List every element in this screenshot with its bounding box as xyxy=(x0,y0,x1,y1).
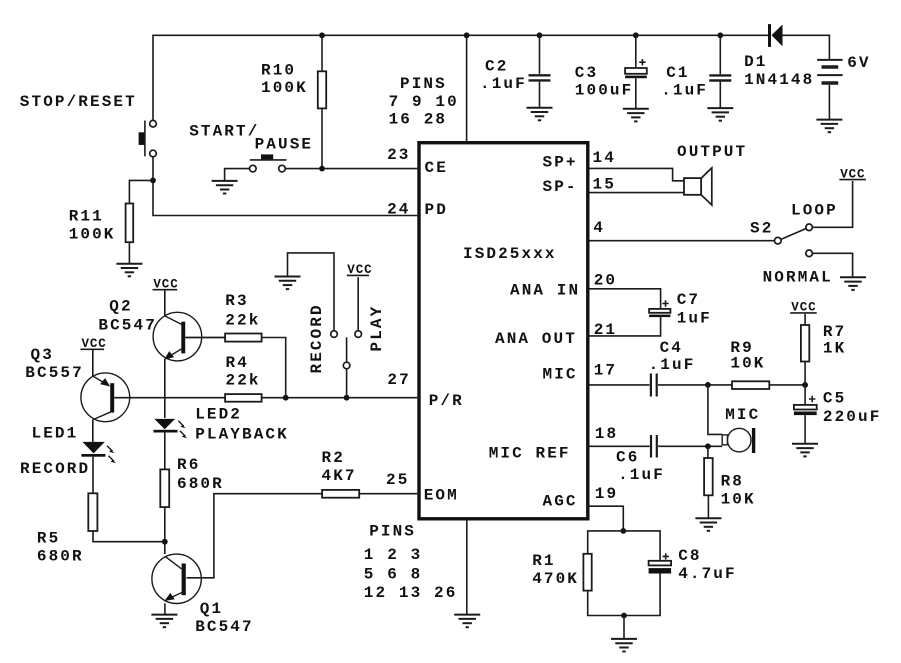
label R3 22k xyxy=(225,292,260,330)
svg-text:STOP/RESET: STOP/RESET xyxy=(20,93,137,111)
pin 23 CE xyxy=(387,146,448,177)
svg-text:6V: 6V xyxy=(847,54,870,72)
svg-text:BC547: BC547 xyxy=(195,618,254,636)
wire VCC to Q3 emitter xyxy=(92,349,94,376)
ground R1/C8 xyxy=(611,639,637,652)
wire node to R7 xyxy=(804,362,806,385)
wire R4 to Q3 base xyxy=(114,397,225,399)
svg-text:680R: 680R xyxy=(177,475,224,493)
svg-text:.1uF: .1uF xyxy=(649,356,696,374)
wire R7 to VCC xyxy=(804,314,806,325)
svg-text:C6: C6 xyxy=(616,449,639,467)
ground C2 xyxy=(527,108,553,121)
svg-text:5 6 8: 5 6 8 xyxy=(364,566,423,584)
wire R3 to Q2 base xyxy=(185,337,225,339)
svg-text:Q2: Q2 xyxy=(109,298,132,316)
label R11 100K xyxy=(69,207,116,243)
label R6 680R xyxy=(177,456,224,493)
ground Q1 xyxy=(151,615,177,628)
svg-text:R1: R1 xyxy=(532,552,555,570)
node stop-reset junction xyxy=(150,178,156,184)
svg-text:START/: START/ xyxy=(189,122,259,140)
power VCC PLAY xyxy=(347,263,373,277)
svg-text:4.7uF: 4.7uF xyxy=(678,565,737,583)
capacitor C6 xyxy=(651,435,657,458)
wire Q3 collector to LED1 xyxy=(92,420,94,442)
wire R10 top xyxy=(321,35,323,71)
node MICREF-R8 junction xyxy=(705,443,711,449)
ground pin 26 xyxy=(454,615,480,628)
LED LED1 xyxy=(81,442,116,463)
wire junction to R11 xyxy=(129,180,153,203)
svg-text:MIC: MIC xyxy=(543,366,578,384)
wire node to R8 xyxy=(707,446,709,458)
svg-text:680R: 680R xyxy=(37,548,84,566)
label PINS 1 2 3 5 6 8 12 13 26 xyxy=(364,523,458,602)
label R2 4K7 xyxy=(322,449,357,485)
svg-text:4K7: 4K7 xyxy=(322,467,357,485)
label R9 10K xyxy=(730,339,765,373)
svg-text:R2: R2 xyxy=(322,449,345,467)
svg-text:Q3: Q3 xyxy=(31,346,54,364)
wire C4 to R9 xyxy=(658,384,732,386)
svg-text:22k: 22k xyxy=(226,372,261,390)
svg-text:LOOP: LOOP xyxy=(791,202,838,220)
svg-text:.1uF: .1uF xyxy=(661,82,708,100)
ground C5 xyxy=(792,444,818,457)
svg-text:470K: 470K xyxy=(532,570,579,588)
svg-text:R6: R6 xyxy=(177,456,200,474)
wire P/R pin 27 to switch and R4 xyxy=(262,397,418,399)
svg-text:R10: R10 xyxy=(261,62,296,80)
wire Q2 emitter to LED2 xyxy=(164,359,166,418)
svg-text:4: 4 xyxy=(593,219,605,237)
label C8 4.7uF xyxy=(678,547,737,583)
resistor R2 xyxy=(322,490,359,498)
svg-text:CE: CE xyxy=(425,159,448,177)
switch contact PLAY xyxy=(355,331,362,338)
svg-text:SP+: SP+ xyxy=(543,153,578,171)
node rail-C1 junction xyxy=(717,32,723,38)
LED LED2 xyxy=(154,419,188,438)
svg-text:15: 15 xyxy=(593,176,616,194)
wire R6 to Q1 collector xyxy=(164,507,166,554)
power VCC LOOP xyxy=(839,167,866,181)
battery 6V xyxy=(817,60,843,120)
ground R11 xyxy=(116,264,142,277)
pin 14 SP+ xyxy=(543,149,616,171)
svg-text:S2: S2 xyxy=(750,220,773,238)
wire C7 to pin 21 xyxy=(590,317,661,336)
svg-text:.1uF: .1uF xyxy=(480,75,527,93)
svg-text:25: 25 xyxy=(386,471,409,489)
svg-text:20: 20 xyxy=(594,272,617,290)
ground RECORD switch xyxy=(275,277,301,290)
svg-text:220uF: 220uF xyxy=(823,408,882,426)
svg-text:7 9 10: 7 9 10 xyxy=(389,93,459,111)
svg-text:100K: 100K xyxy=(69,225,116,243)
svg-text:100uF: 100uF xyxy=(575,82,634,100)
node P/R switch junction xyxy=(344,395,350,401)
wire R8 to ground xyxy=(707,495,709,518)
svg-text:16 28: 16 28 xyxy=(389,111,448,129)
wire SP- pin 15 to speaker xyxy=(590,192,685,194)
op-amp U1 ISD25xxx chip body xyxy=(419,143,588,519)
resistor R8 xyxy=(704,458,713,495)
resistor R3 xyxy=(225,334,262,342)
label C2 .1uF xyxy=(480,58,527,94)
svg-text:19: 19 xyxy=(595,485,618,503)
label R8 10K xyxy=(721,473,756,509)
capacitor C8 xyxy=(649,553,672,573)
label C1 .1uF xyxy=(661,64,708,100)
wire LED2 to R6 xyxy=(164,432,166,469)
wire pin 20 to C7 xyxy=(590,289,661,309)
wire R1/C8 bottom rail xyxy=(588,574,660,616)
resistor R5 xyxy=(88,493,97,531)
node P/R R3 junction xyxy=(283,395,289,401)
wire R2 to EOM pin 25 xyxy=(359,493,417,495)
transistor Q2 xyxy=(153,312,202,361)
svg-text:RECORD: RECORD xyxy=(20,460,90,478)
label Q3 BC557 xyxy=(25,346,84,382)
ground NORMAL xyxy=(840,277,866,290)
label Q1 BC547 xyxy=(195,600,254,636)
label C3 100uF xyxy=(575,64,634,100)
ground C1 xyxy=(707,108,733,121)
svg-text:1K: 1K xyxy=(823,340,846,358)
svg-text:23: 23 xyxy=(387,146,410,164)
svg-text:MIC: MIC xyxy=(725,406,760,424)
wire Q1 base to R2 xyxy=(187,494,323,578)
label R5 680R xyxy=(37,530,84,566)
wire PLAY contact to VCC xyxy=(357,277,359,331)
diode D1 xyxy=(768,24,783,47)
label R10 100K xyxy=(261,62,308,98)
pin 25 EOM xyxy=(386,471,459,505)
resistor R10 xyxy=(318,71,326,108)
wire Q1 emitter to ground xyxy=(164,603,166,614)
pin 20 ANA IN xyxy=(510,272,617,300)
svg-text:PD: PD xyxy=(425,201,448,219)
svg-text:C1: C1 xyxy=(666,64,689,82)
svg-text:OUTPUT: OUTPUT xyxy=(677,143,747,161)
resistor R4 xyxy=(225,394,262,402)
svg-text:Q1: Q1 xyxy=(200,600,223,618)
wire CE pin 23 xyxy=(285,168,417,170)
wire pin 18 to C6 xyxy=(590,445,650,447)
switch STOP/RESET xyxy=(139,120,157,156)
node rail-C3 junction xyxy=(633,32,639,38)
svg-text:12 13 26: 12 13 26 xyxy=(364,584,458,602)
node AGC junction top xyxy=(620,528,626,534)
svg-text:R7: R7 xyxy=(823,323,846,341)
svg-text:24: 24 xyxy=(387,200,410,218)
label R1 470K xyxy=(532,552,579,588)
svg-text:27: 27 xyxy=(387,371,410,389)
wire diode anode to battery xyxy=(783,35,830,60)
wire R9 to R7/C5 node xyxy=(769,384,805,386)
wire pin 4 to S2 xyxy=(590,240,775,242)
wire Q2 base to R3 xyxy=(185,337,225,339)
ground R8 xyxy=(695,518,721,531)
node R9-R7-C5 junction xyxy=(802,382,808,388)
microphone MIC xyxy=(722,428,755,453)
wire R3 branch xyxy=(262,338,286,398)
label C6 .1uF xyxy=(616,449,665,485)
wire C6 to mic bottom xyxy=(658,445,722,447)
wire switch to junction and PD pin 24 xyxy=(153,157,417,216)
capacitor C4 xyxy=(651,374,657,397)
ground battery xyxy=(816,120,842,133)
wire R5 to junction xyxy=(93,531,165,542)
transistor Q1 xyxy=(152,554,201,603)
resistor R9 xyxy=(732,381,769,389)
svg-text:EOM: EOM xyxy=(424,487,459,505)
label D1 1N4148 xyxy=(744,53,814,89)
svg-text:PINS: PINS xyxy=(400,75,447,93)
node R5-R6-Q1 junction xyxy=(162,539,168,545)
svg-text:100K: 100K xyxy=(261,79,308,97)
svg-text:17: 17 xyxy=(594,362,617,380)
label LED2 PLAYBACK xyxy=(195,406,289,444)
ground START/PAUSE xyxy=(212,181,238,194)
wire LED1 to R5 xyxy=(92,457,94,494)
capacitor C7 xyxy=(649,300,670,317)
wire SP+ pin 14 to speaker xyxy=(590,168,685,180)
wire MIC node down to microphone xyxy=(708,385,722,435)
svg-text:P/R: P/R xyxy=(429,392,464,410)
switch START/PAUSE xyxy=(250,154,287,172)
svg-text:PINS: PINS xyxy=(369,523,416,541)
wire LOOP contact to VCC xyxy=(812,181,852,227)
capacitor C2 xyxy=(529,35,551,107)
ground C3 xyxy=(623,109,649,122)
label C5 220uF xyxy=(823,389,882,426)
node MIC-C4-R9 junction xyxy=(705,382,711,388)
wire R10 bottom to CE node xyxy=(321,108,323,168)
svg-text:R8: R8 xyxy=(721,473,744,491)
node rail-C2 junction xyxy=(537,32,543,38)
svg-text:ANA IN: ANA IN xyxy=(510,282,580,300)
svg-text:RECORD: RECORD xyxy=(308,303,326,373)
label Q2 BC547 xyxy=(98,298,157,335)
pin 15 SP- xyxy=(543,176,616,196)
svg-text:C8: C8 xyxy=(678,547,701,565)
capacitor C5 xyxy=(794,385,817,444)
svg-text:C3: C3 xyxy=(575,64,598,82)
svg-text:C2: C2 xyxy=(485,58,508,76)
svg-text:BC547: BC547 xyxy=(98,317,157,335)
wire VCC top rail xyxy=(153,35,768,123)
wire R1/C8 top rail xyxy=(588,531,660,561)
wire VCC to Q2 collector xyxy=(164,290,166,316)
node CE-R10 junction xyxy=(319,166,325,172)
power VCC Q3 xyxy=(80,337,106,351)
resistor R11 xyxy=(126,204,134,243)
node AGC junction bottom xyxy=(621,613,627,619)
switch S2 xyxy=(775,224,813,257)
svg-text:PLAY: PLAY xyxy=(368,305,386,352)
wire pin 19 AGC to R1/C8 xyxy=(590,506,624,531)
svg-text:BC557: BC557 xyxy=(25,364,84,382)
svg-text:R3: R3 xyxy=(225,292,248,310)
label C7 1uF xyxy=(677,291,712,327)
svg-text:R4: R4 xyxy=(226,354,249,372)
capacitor C1 xyxy=(709,35,731,108)
pin 27 P/R xyxy=(387,371,463,410)
svg-text:C4: C4 xyxy=(660,339,683,357)
wire R11 to ground xyxy=(128,242,130,264)
svg-text:.1uF: .1uF xyxy=(618,466,665,484)
switch RECORD/PLAY pole xyxy=(343,337,350,397)
svg-text:10K: 10K xyxy=(730,355,765,373)
pin 19 AGC xyxy=(543,485,619,511)
label R7 1K xyxy=(823,323,846,357)
svg-text:PLAYBACK: PLAYBACK xyxy=(195,425,289,443)
wire chip power pins to rail xyxy=(466,35,468,141)
svg-text:R5: R5 xyxy=(37,530,60,548)
svg-text:22k: 22k xyxy=(225,312,260,330)
wire bottom rail to ground xyxy=(623,616,625,639)
wire START/PAUSE to ground xyxy=(225,169,250,181)
pin 21 ANA OUT xyxy=(495,321,617,348)
svg-text:SP-: SP- xyxy=(543,178,578,196)
wire RECORD contact to ground xyxy=(288,253,335,331)
svg-text:10K: 10K xyxy=(721,491,756,509)
resistor R1 xyxy=(583,554,591,591)
svg-text:18: 18 xyxy=(595,425,618,443)
pin 18 MIC REF xyxy=(489,425,619,463)
svg-text:D1: D1 xyxy=(744,53,767,71)
label R4 22k xyxy=(226,354,261,390)
node rail-chip junction xyxy=(464,32,470,38)
svg-text:C5: C5 xyxy=(823,389,846,407)
wire NORMAL contact to ground xyxy=(812,253,852,277)
label START/PAUSE xyxy=(189,122,313,153)
svg-text:ANA OUT: ANA OUT xyxy=(495,330,577,348)
transistor Q3 xyxy=(81,373,130,422)
svg-text:1N4148: 1N4148 xyxy=(744,71,814,89)
svg-text:ISD25xxx: ISD25xxx xyxy=(463,245,557,263)
pin 24 PD xyxy=(387,200,448,219)
svg-text:LED1: LED1 xyxy=(32,425,79,443)
svg-text:LED2: LED2 xyxy=(195,406,242,424)
node rail-R10 junction xyxy=(319,32,325,38)
switch contact RECORD xyxy=(331,331,338,338)
wire pin 26 to ground xyxy=(466,521,468,615)
pin 17 MIC xyxy=(543,362,618,384)
svg-text:PAUSE: PAUSE xyxy=(255,135,314,153)
svg-text:R11: R11 xyxy=(69,207,104,225)
svg-text:1 2 3: 1 2 3 xyxy=(364,546,423,564)
wire pin 17 to C4 xyxy=(590,384,650,386)
svg-text:NORMAL: NORMAL xyxy=(763,269,833,287)
svg-text:MIC REF: MIC REF xyxy=(489,445,571,463)
svg-text:14: 14 xyxy=(593,149,616,167)
svg-text:C7: C7 xyxy=(677,291,700,309)
label PINS 7 9 10 16 28 xyxy=(389,75,459,129)
svg-text:1uF: 1uF xyxy=(677,310,712,328)
speaker OUTPUT xyxy=(684,168,712,205)
label C4 .1uF xyxy=(649,339,696,374)
resistor R7 xyxy=(801,325,809,362)
svg-text:AGC: AGC xyxy=(543,493,578,511)
capacitor C3 xyxy=(625,35,647,109)
power VCC Q2 xyxy=(153,277,179,291)
power VCC R7 xyxy=(790,301,817,315)
resistor R6 xyxy=(160,469,169,507)
